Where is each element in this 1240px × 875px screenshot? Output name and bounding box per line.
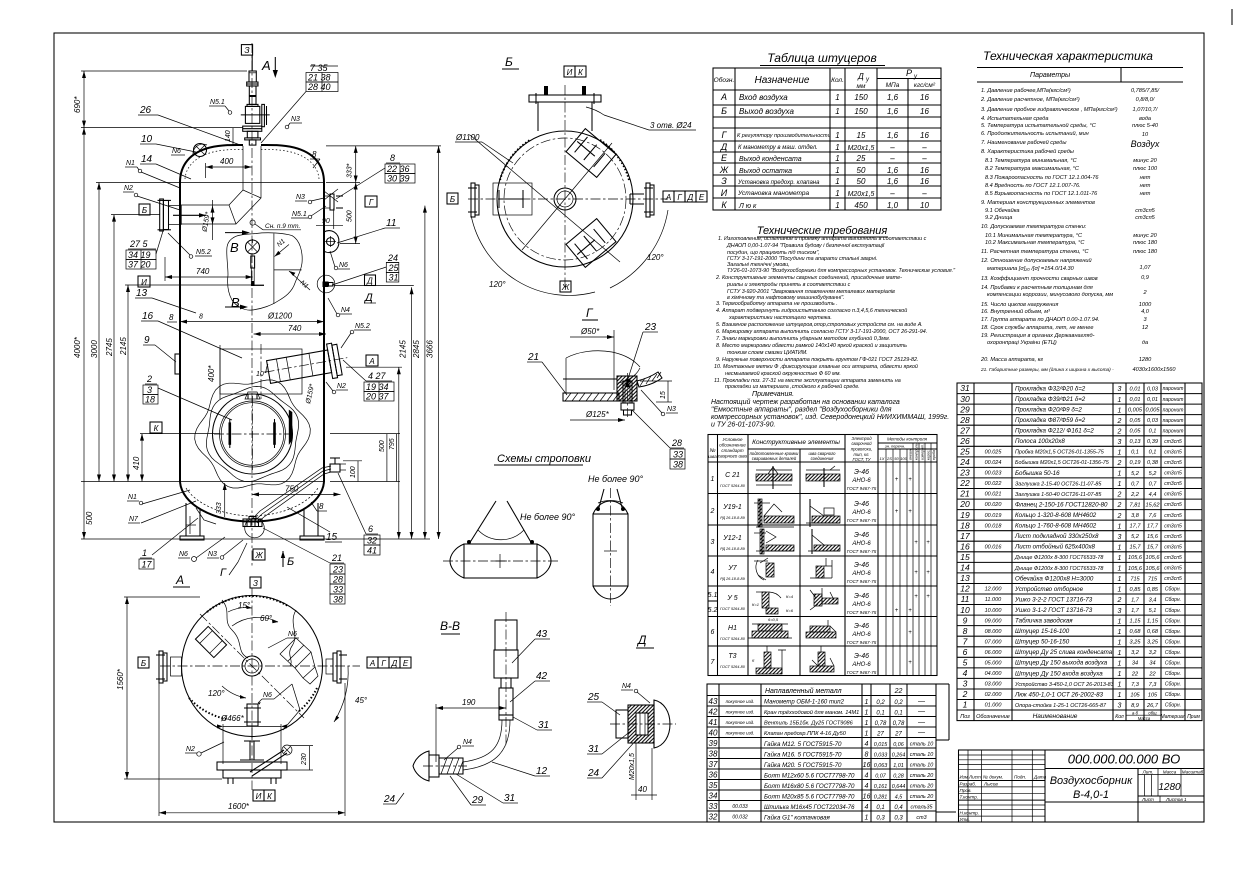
svg-text:ГОСТ 5264-80: ГОСТ 5264-80 <box>720 607 746 611</box>
svg-text:Техническая характеристика: Техническая характеристика <box>983 49 1153 63</box>
svg-text:Таблица штуцеров: Таблица штуцеров <box>767 51 877 65</box>
svg-text:13: 13 <box>960 573 970 583</box>
svg-text:7,3: 7,3 <box>1131 682 1140 688</box>
svg-text:20. Масса аппарата, кг: 20. Масса аппарата, кг <box>980 357 1043 363</box>
manhole reinforcing blob <box>195 380 311 488</box>
svg-text:6: 6 <box>368 524 373 534</box>
svg-text:4: 4 <box>865 773 869 780</box>
svg-text:12. Отношение допускаемых напр: 12. Отношение допускаемых напряжений <box>981 257 1092 264</box>
svg-text:08.000: 08.000 <box>985 629 1003 635</box>
svg-text:42: 42 <box>709 708 718 717</box>
svg-text:105: 105 <box>1130 692 1140 698</box>
svg-text:16. Внутренний объем, м³: 16. Внутренний объем, м³ <box>981 308 1050 315</box>
svg-text:ст3сп5: ст3сп5 <box>1164 534 1182 540</box>
svg-text:105,6: 105,6 <box>1146 555 1161 561</box>
svg-text:зн. перечн.: зн. перечн. <box>884 444 905 449</box>
leader 16 <box>141 311 242 358</box>
svg-text:15: 15 <box>857 131 866 140</box>
svg-text:00.020: 00.020 <box>985 502 1003 508</box>
svg-text:Изм: Изм <box>960 775 969 780</box>
svg-text:Материал: Материал <box>1160 714 1185 720</box>
svg-text:Прокладка Ф39/Ф21 δ=2: Прокладка Ф39/Ф21 δ=2 <box>1015 396 1086 403</box>
svg-text:минус 20: минус 20 <box>1133 233 1157 239</box>
svg-text:2145: 2145 <box>119 337 128 356</box>
leader 26 <box>138 105 243 146</box>
svg-text:8.2 Температура максимальная,: 8.2 Температура максимальная, °С <box>985 166 1080 172</box>
svg-text:Гайка М20. 5 ГОСТ5915-70: Гайка М20. 5 ГОСТ5915-70 <box>764 762 842 769</box>
svg-text:8: 8 <box>199 314 203 321</box>
svg-text:плюс 180: плюс 180 <box>1133 249 1158 255</box>
svg-text:материала [σ]₂₀ /[σ] =15: материала [σ]₂₀ /[σ] =154.0/14.30 <box>987 266 1075 272</box>
svg-text:ГОСТ 9467-75: ГОСТ 9467-75 <box>847 518 877 523</box>
svg-text:1,6: 1,6 <box>887 107 899 116</box>
svg-text:М20х1,5: М20х1,5 <box>848 191 875 198</box>
svg-text:17,7: 17,7 <box>1130 524 1142 530</box>
svg-text:8. Место маркировки обвести ра: 8. Место маркировки обвести рамкой 140х1… <box>716 342 907 349</box>
svg-text:Табличка заводская: Табличка заводская <box>1015 618 1073 625</box>
svg-text:1: 1 <box>835 107 839 116</box>
svg-text:Назначение: Назначение <box>755 75 810 86</box>
section arrow А <box>261 57 278 78</box>
svg-text:N3: N3 <box>296 194 305 201</box>
svg-text:0,264: 0,264 <box>892 753 906 759</box>
svg-text:ГОСТ 9467-75: ГОСТ 9467-75 <box>847 486 877 491</box>
svg-text:10. Допускаемая температура ст: 10. Допускаемая температура стенки: <box>981 224 1087 230</box>
svg-text:Кол: Кол <box>1115 714 1124 720</box>
view Б lug lower <box>566 219 616 268</box>
svg-text:ТУ26-01-1073-90 "Воздухосборни: ТУ26-01-1073-90 "Воздухосборники для ком… <box>727 268 956 274</box>
svg-text:0,1: 0,1 <box>1149 429 1157 435</box>
svg-text:3: 3 <box>963 679 968 689</box>
label 8 wall <box>167 313 177 322</box>
svg-text:Гайка G1" колпачковая: Гайка G1" колпачковая <box>764 815 831 822</box>
svg-text:8: 8 <box>963 626 968 636</box>
svg-text:У19-1: У19-1 <box>722 504 742 511</box>
lifting lug on dome <box>193 144 207 157</box>
svg-text:02.000: 02.000 <box>985 692 1003 698</box>
svg-text:Лит.: Лит. <box>1142 770 1154 775</box>
view Б lug upper right <box>566 129 616 178</box>
leader N5.2 right <box>341 323 371 348</box>
svg-text:У12-1: У12-1 <box>722 535 742 542</box>
svg-text:Д: Д <box>366 277 373 286</box>
svg-text:795: 795 <box>389 438 396 450</box>
svg-text:5,1: 5,1 <box>1149 608 1157 614</box>
nozzle table rows text <box>719 92 930 210</box>
svg-text:0,07: 0,07 <box>875 774 886 780</box>
svg-text:24: 24 <box>387 253 398 263</box>
svg-text:ст3сп5: ст3сп5 <box>1164 555 1182 561</box>
svg-text:+: + <box>926 594 930 600</box>
parts list rows <box>959 383 1200 721</box>
callout 2/3/18 <box>143 374 232 420</box>
svg-text:1: 1 <box>1118 523 1122 530</box>
svg-text:С 21: С 21 <box>725 472 740 479</box>
svg-text:1,6: 1,6 <box>887 93 899 102</box>
svg-text:Сборн.: Сборн. <box>1165 629 1181 635</box>
svg-text:1: 1 <box>865 731 869 738</box>
В-В manometer <box>494 612 518 745</box>
svg-text:2,2: 2,2 <box>1130 492 1140 498</box>
svg-text:Штуцер 50-16-150: Штуцер 50-16-150 <box>1015 639 1070 646</box>
svg-text:00.032: 00.032 <box>732 815 748 821</box>
svg-text:Э-46: Э-46 <box>854 469 869 476</box>
leader N3 bottom <box>207 540 243 559</box>
svg-text:Ø466*: Ø466* <box>220 714 245 723</box>
valve assembly on top <box>241 71 270 145</box>
callout 27 5 / 34 19 / 37 20 <box>126 231 163 270</box>
svg-text:1,0: 1,0 <box>887 201 899 210</box>
svg-text:Д: Д <box>687 193 694 202</box>
svg-text:Методы контроля: Методы контроля <box>887 437 928 442</box>
internal square 16 <box>207 344 302 399</box>
svg-text:0,2: 0,2 <box>894 700 903 706</box>
svg-text:Т.контр.: Т.контр. <box>960 795 979 800</box>
svg-text:6: 6 <box>963 647 968 657</box>
svg-text:1,7: 1,7 <box>1131 608 1140 614</box>
svg-text:Ж: Ж <box>254 551 263 560</box>
svg-text:25: 25 <box>388 263 400 273</box>
svg-text:Л ю к: Л ю к <box>738 203 757 210</box>
svg-text:28: 28 <box>332 575 343 585</box>
svg-text:40: 40 <box>709 729 718 738</box>
svg-text:Д: Д <box>363 292 373 304</box>
svg-text:Лист подкладной 330х250х8: Лист подкладной 330х250х8 <box>1014 533 1099 540</box>
svg-text:8: 8 <box>312 150 317 159</box>
svg-text:2: 2 <box>1117 418 1122 425</box>
svg-text:0,281: 0,281 <box>874 795 888 801</box>
dim 333 bottom <box>216 483 227 517</box>
svg-text:0,1: 0,1 <box>876 805 884 811</box>
leader 11 <box>337 218 400 243</box>
svg-text:З: З <box>253 579 258 588</box>
svg-text:Б: Б <box>450 195 455 204</box>
svg-text:1: 1 <box>835 131 839 140</box>
svg-text:В-В: В-В <box>440 619 460 633</box>
svg-text:+: + <box>895 509 899 515</box>
svg-text:–: – <box>889 189 895 198</box>
svg-text:паронит: паронит <box>1163 407 1184 413</box>
svg-text:3,4: 3,4 <box>1149 597 1157 603</box>
svg-text:0,8/8,0/: 0,8/8,0/ <box>1136 97 1156 103</box>
leader 10 <box>140 134 196 152</box>
svg-text:АНО-6: АНО-6 <box>851 478 871 484</box>
view Б top flange <box>529 86 601 131</box>
nozzle table header text <box>714 68 936 90</box>
svg-text:100: 100 <box>350 466 357 478</box>
svg-text:21. Габаритные размеры, мм (дл: 21. Габаритные размеры, мм (длина х шири… <box>980 367 1114 373</box>
svg-text:N6: N6 <box>288 631 297 638</box>
svg-text:Б: Б <box>287 556 294 568</box>
right tall dims 2145/2845/3666 <box>334 146 441 539</box>
svg-text:1: 1 <box>1118 692 1122 699</box>
main view: vessel centerline <box>251 43 253 566</box>
svg-text:06.000: 06.000 <box>985 650 1003 656</box>
svg-text:+: + <box>908 660 912 666</box>
svg-text:1: 1 <box>865 815 869 822</box>
svg-text:3,8: 3,8 <box>1131 513 1140 519</box>
svg-text:0,05: 0,05 <box>1130 418 1142 424</box>
sling scheme horizontal vessel <box>443 501 575 578</box>
svg-text:Сборн.: Сборн. <box>1165 682 1181 688</box>
svg-text:Дата: Дата <box>1033 775 1047 780</box>
svg-text:23: 23 <box>332 565 343 575</box>
leader 13 <box>135 288 196 313</box>
title name <box>1050 775 1133 801</box>
callout 28/33/38 detail Г <box>632 410 685 470</box>
dim 740 mid <box>254 324 326 336</box>
svg-text:450: 450 <box>854 201 868 210</box>
view Б right flange <box>630 183 654 217</box>
view A support I-beam <box>240 741 264 760</box>
svg-text:8: 8 <box>390 153 395 163</box>
detail Д title <box>636 633 654 648</box>
svg-text:плюс 5-40: плюс 5-40 <box>1132 123 1159 129</box>
В-В left fitting <box>413 751 467 781</box>
svg-text:Е: Е <box>699 193 705 202</box>
svg-text:ст3сп5: ст3сп5 <box>1135 208 1155 214</box>
svg-text:паронит: паронит <box>1163 386 1184 392</box>
svg-text:Днище Ф1200х 8-300 ГОСТ6533-: Днище Ф1200х 8-300 ГОСТ6533-78 <box>1014 566 1103 572</box>
svg-text:37 20: 37 20 <box>128 260 151 270</box>
svg-text:ст3: ст3 <box>916 815 926 821</box>
callout 8 / 22 36 / 30 39 <box>336 153 415 199</box>
svg-text:500: 500 <box>379 440 386 452</box>
svg-text:34: 34 <box>1132 661 1138 667</box>
svg-text:750: 750 <box>285 485 299 494</box>
svg-text:0,03: 0,03 <box>1147 386 1159 392</box>
svg-text:Схемы строповки: Схемы строповки <box>497 453 591 465</box>
svg-text:2: 2 <box>1117 502 1122 509</box>
svg-text:29: 29 <box>471 795 484 806</box>
svg-text:50: 50 <box>857 177 866 186</box>
svg-text:соединения: соединения <box>811 456 835 461</box>
svg-text:38: 38 <box>333 595 343 605</box>
svg-text:2: 2 <box>1117 597 1122 604</box>
svg-text:16: 16 <box>920 107 929 116</box>
svg-text:проволоки,: проволоки, <box>851 447 872 452</box>
svg-text:Б: Б <box>142 206 147 215</box>
svg-text:105,6: 105,6 <box>1146 566 1161 572</box>
svg-text:16: 16 <box>863 762 871 769</box>
svg-text:плюс 180: плюс 180 <box>1133 240 1158 246</box>
svg-text:А: А <box>720 92 727 102</box>
svg-text:7. Знаки маркировки выполнить: 7. Знаки маркировки выполнить ударным ме… <box>716 335 890 342</box>
flag Б view Б <box>447 193 458 204</box>
svg-text:10°: 10° <box>256 370 267 378</box>
svg-text:8.4 Вредность по ГОС: 8.4 Вредность по ГОСТ 12.1.007-76. <box>985 183 1081 189</box>
svg-text:18: 18 <box>960 520 970 530</box>
svg-text:01.000: 01.000 <box>985 703 1003 709</box>
svg-text:ГОСТ 5264-80: ГОСТ 5264-80 <box>720 665 746 669</box>
sling scheme vertical vessel <box>588 474 643 606</box>
svg-text:2: 2 <box>962 689 968 699</box>
svg-text:тонким слоем смазки ЦИАТИМ.: тонким слоем смазки ЦИАТИМ. <box>727 350 808 356</box>
svg-text:3,25: 3,25 <box>1147 640 1159 646</box>
svg-text:ГОСТ 5264-80: ГОСТ 5264-80 <box>720 484 746 488</box>
svg-text:N5.1: N5.1 <box>210 99 225 106</box>
svg-text:21: 21 <box>959 489 970 499</box>
tech characteristics title <box>983 49 1153 63</box>
svg-text:охоронпраці Украіни (ЕТЦ): охоронпраці Украіни (ЕТЦ) <box>987 340 1057 346</box>
flag К <box>150 422 162 433</box>
svg-text:Ø1200: Ø1200 <box>267 312 293 321</box>
svg-text:А: А <box>665 193 671 202</box>
svg-text:1: 1 <box>1118 471 1122 478</box>
svg-text:1: 1 <box>1118 671 1122 678</box>
svg-text:АНО-6: АНО-6 <box>851 571 871 577</box>
leg detail lines <box>186 508 216 534</box>
svg-text:24: 24 <box>587 768 600 779</box>
svg-text:Люк 450-1,0-1 ОСТ 26-2002-83: Люк 450-1,0-1 ОСТ 26-2002-83 <box>1014 691 1104 698</box>
svg-text:Поз: Поз <box>960 714 970 720</box>
svg-text:Утв.: Утв. <box>960 817 970 822</box>
svg-text:3: 3 <box>1118 534 1122 541</box>
svg-text:В-4,0-1: В-4,0-1 <box>1073 789 1109 801</box>
svg-text:1: 1 <box>1118 576 1122 583</box>
svg-text:РД 26-18-8-89: РД 26-18-8-89 <box>720 516 745 520</box>
svg-text:ст3сп5: ст3сп5 <box>1164 545 1182 551</box>
svg-text:04.000: 04.000 <box>985 671 1003 677</box>
svg-text:22: 22 <box>959 478 970 488</box>
svg-text:2: 2 <box>710 508 715 515</box>
svg-text:16: 16 <box>142 311 154 322</box>
svg-text:0,2: 0,2 <box>876 700 885 706</box>
svg-text:05.000: 05.000 <box>985 661 1003 667</box>
svg-text:17,7: 17,7 <box>1147 524 1159 530</box>
svg-text:0,78: 0,78 <box>893 721 905 727</box>
svg-text:10.1 Минимальная температура,: 10.1 Минимальная температура, °С <box>985 233 1083 239</box>
svg-text:9: 9 <box>963 615 968 625</box>
svg-text:25: 25 <box>587 692 600 703</box>
dim 400 top <box>206 157 252 178</box>
svg-text:50: 50 <box>857 166 866 175</box>
svg-text:Масса: Масса <box>1163 770 1177 775</box>
svg-text:ГОСТ 9467-75: ГОСТ 9467-75 <box>847 670 877 675</box>
svg-text:Г: Г <box>381 659 386 668</box>
svg-text:14: 14 <box>141 154 153 165</box>
svg-text:Шпилька М16х45 ГОСТ22034-76: Шпилька М16х45 ГОСТ22034-76 <box>764 805 855 811</box>
svg-text:3: 3 <box>147 385 152 395</box>
svg-text:1: 1 <box>835 201 839 210</box>
svg-text:38: 38 <box>673 460 683 470</box>
svg-text:У 5: У 5 <box>726 595 737 602</box>
svg-text:21: 21 <box>527 352 539 363</box>
svg-text:0,28: 0,28 <box>893 774 904 780</box>
svg-text:проба: проба <box>932 450 936 460</box>
svg-text:У7: У7 <box>727 565 737 572</box>
flag Ж bottom <box>253 549 265 560</box>
svg-text:Штуцер 15-16-100: Штуцер 15-16-100 <box>1015 628 1070 635</box>
svg-text:1,7: 1,7 <box>1131 597 1140 603</box>
svg-text:28 40: 28 40 <box>307 82 331 92</box>
svg-text:Н1: Н1 <box>728 625 737 632</box>
svg-text:1: 1 <box>1118 682 1122 689</box>
dim 740 И-level <box>165 257 253 281</box>
view A main circle <box>182 596 323 737</box>
svg-text:7,6: 7,6 <box>1149 513 1158 519</box>
leader N3 right <box>295 194 324 204</box>
svg-text:15,62: 15,62 <box>1146 502 1161 508</box>
svg-text:N7: N7 <box>129 516 139 523</box>
svg-text:3,25: 3,25 <box>1130 640 1142 646</box>
svg-text:28: 28 <box>671 438 682 448</box>
svg-text:09.000: 09.000 <box>985 618 1003 624</box>
title block outline <box>959 750 1205 822</box>
view Б title <box>502 55 519 69</box>
svg-text:23: 23 <box>644 322 657 333</box>
svg-text:Штуцер Ду 25 слива конденсата: Штуцер Ду 25 слива конденсата <box>1015 649 1113 656</box>
svg-text:Э-46: Э-46 <box>854 653 869 660</box>
flag А right <box>366 355 378 366</box>
svg-text:Устройство отборное: Устройство отборное <box>1014 586 1084 593</box>
flags И К view Б <box>564 66 586 77</box>
svg-text:90: 90 <box>322 218 330 225</box>
view Б circles <box>497 131 633 267</box>
svg-text:27: 27 <box>894 732 902 738</box>
svg-text:N2: N2 <box>124 185 133 192</box>
label 10deg <box>256 364 268 378</box>
svg-text:9.2 Днища: 9.2 Днища <box>985 215 1012 221</box>
label Ф159 right <box>305 383 316 405</box>
flag Д right <box>365 275 376 286</box>
svg-text:Подп.: Подп. <box>1014 775 1026 780</box>
svg-text:32: 32 <box>367 536 377 546</box>
svg-text:2: 2 <box>1117 492 1122 499</box>
svg-text:3: 3 <box>1118 608 1122 615</box>
svg-text:33: 33 <box>333 585 343 595</box>
svg-text:1000: 1000 <box>1139 302 1152 308</box>
svg-text:Ушко 3-1-2 ГОСТ 13716-73: Ушко 3-1-2 ГОСТ 13716-73 <box>1014 607 1093 614</box>
svg-text:8.3 Пожароопасность по ГОСТ 1: 8.3 Пожароопасность по ГОСТ 12.1.004-76 <box>985 175 1099 181</box>
left dim lines 4000/3000/2745/2145 <box>73 128 430 539</box>
svg-text:333: 333 <box>216 502 223 514</box>
svg-text:23: 23 <box>959 468 970 478</box>
svg-text:контроль: контроль <box>915 443 919 460</box>
svg-text:4,4: 4,4 <box>1149 492 1157 498</box>
svg-text:1: 1 <box>1118 407 1122 414</box>
svg-text:З: З <box>244 45 250 55</box>
corner registration tick <box>1231 9 1233 25</box>
dim Ф159 left <box>201 200 214 240</box>
svg-text:И: И <box>721 188 728 198</box>
view Б center boss <box>554 188 576 210</box>
leader N5.1 right <box>291 206 326 219</box>
svg-text:10.000: 10.000 <box>985 608 1003 614</box>
svg-text:22 36: 22 36 <box>386 164 410 174</box>
svg-text:32: 32 <box>709 813 718 822</box>
svg-text:4 27: 4 27 <box>368 371 387 381</box>
svg-text:4: 4 <box>865 783 869 790</box>
svg-text:12: 12 <box>536 766 548 777</box>
svg-text:00.033: 00.033 <box>732 804 748 810</box>
svg-text:Вход воздуха: Вход воздуха <box>739 93 788 102</box>
view A left flange Б <box>156 651 182 683</box>
svg-text:Прокладка Ф32/Ф20 δ=2: Прокладка Ф32/Ф20 δ=2 <box>1015 385 1086 392</box>
svg-text:21: 21 <box>331 553 342 563</box>
weld row 1 С21 <box>711 466 913 491</box>
svg-text:ст3сп5: ст3сп5 <box>1164 502 1182 508</box>
svg-text:–: – <box>921 154 927 163</box>
svg-text:ст3сп5: ст3сп5 <box>1164 513 1182 519</box>
svg-text:39: 39 <box>709 739 718 748</box>
svg-text:34: 34 <box>709 792 718 801</box>
svg-text:+: + <box>914 594 918 600</box>
svg-text:16: 16 <box>920 93 929 102</box>
svg-text:Р: Р <box>906 68 912 78</box>
svg-text:0,7: 0,7 <box>1149 481 1158 487</box>
dim 90 <box>316 208 343 229</box>
